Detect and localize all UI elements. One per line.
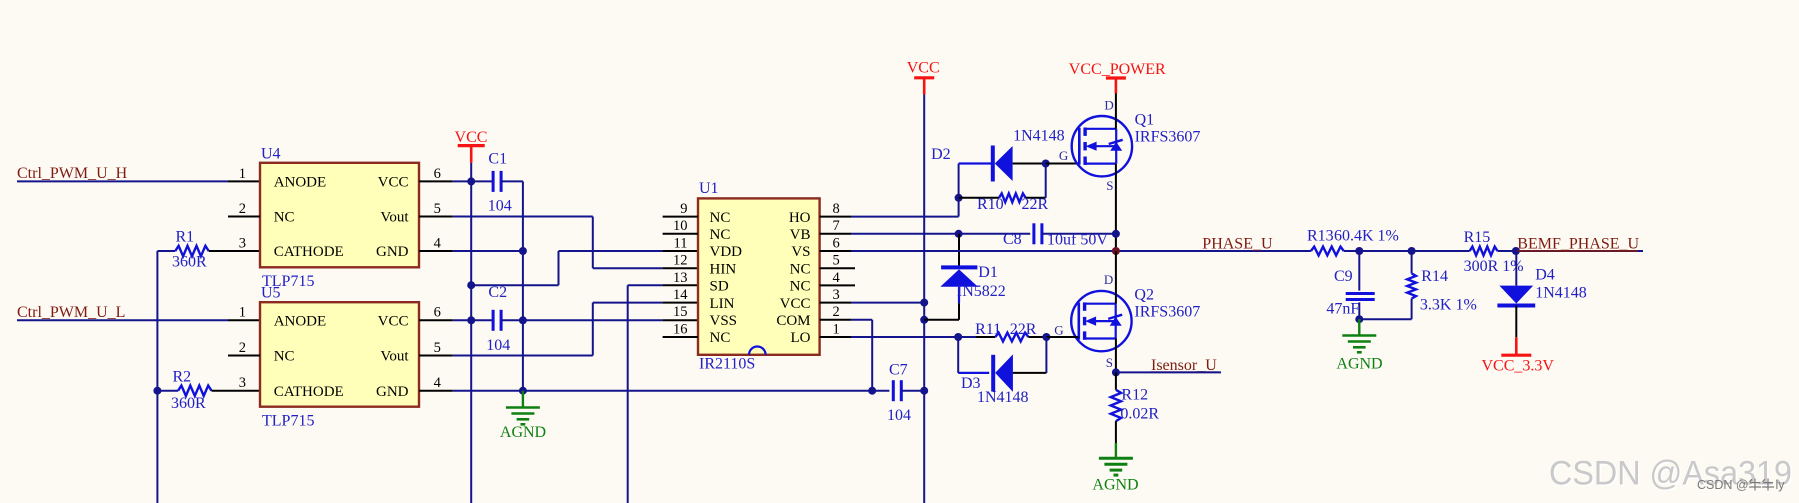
svg-text:5: 5 — [833, 253, 840, 269]
wire Q2 source to sense node — [1112, 339, 1120, 377]
node C9/R13 junction — [1355, 247, 1363, 255]
svg-text:104: 104 — [887, 407, 911, 424]
svg-text:6: 6 — [833, 235, 840, 251]
wire VS / PHASE_U row — [851, 250, 1643, 252]
svg-text:Vout: Vout — [380, 349, 409, 365]
svg-text:300R 1%: 300R 1% — [1464, 258, 1524, 275]
svg-text:U1: U1 — [699, 180, 719, 197]
svg-text:COM: COM — [776, 313, 810, 329]
svg-text:NC: NC — [790, 261, 811, 277]
svg-text:NC: NC — [710, 330, 731, 346]
watermark CSDN @niuniu-ly — [1697, 478, 1785, 492]
svg-text:12: 12 — [673, 253, 688, 269]
wire U5 pin4 (GND) / COM / C7 net — [453, 387, 876, 395]
svg-text:SD: SD — [710, 279, 729, 295]
wire U1 pin3 VCC to rail — [851, 302, 924, 304]
svg-text:ly: ly — [1776, 478, 1786, 492]
svg-text:IN5822: IN5822 — [957, 283, 1006, 300]
wire Isensor_U — [1116, 371, 1221, 373]
svg-text:360R: 360R — [171, 395, 206, 412]
svg-text:C2: C2 — [488, 284, 507, 301]
svg-text:10uf 50V: 10uf 50V — [1047, 232, 1108, 249]
resistor R12 0.02R — [1111, 372, 1160, 443]
resistor R15 300R 1% — [1464, 229, 1524, 275]
ground AGND (left) — [500, 391, 546, 441]
node BEMF_PHASE_U — [1512, 247, 1520, 255]
svg-text:NC: NC — [710, 227, 731, 243]
node PHASE_U at Q1/Q2 junction — [1112, 247, 1120, 255]
svg-text:13: 13 — [673, 270, 688, 286]
svg-text:47nF: 47nF — [1326, 301, 1359, 318]
svg-text:10: 10 — [673, 218, 688, 234]
svg-text:S: S — [1106, 178, 1113, 193]
svg-text:ANODE: ANODE — [274, 314, 327, 330]
svg-text:CSDN @: CSDN @ — [1697, 478, 1749, 492]
wire AGND vertical rail (C1-C2) — [519, 181, 527, 394]
resistor R2 — [157, 368, 260, 412]
svg-text:1N4148: 1N4148 — [1535, 285, 1587, 302]
ground AGND (under R12) — [1092, 443, 1138, 494]
svg-text:BEMF_PHASE_U: BEMF_PHASE_U — [1517, 235, 1639, 252]
svg-text:R15: R15 — [1464, 229, 1491, 246]
capacitor C9 47nF — [1326, 251, 1374, 319]
wire U1 pin7 VB to bootstrap C8 — [851, 230, 1030, 238]
wire gate node to Q2 gate — [1042, 323, 1078, 342]
wire U1 pin1 LO to gate network — [851, 333, 995, 341]
power symbol VCC (middle) — [907, 60, 940, 95]
svg-text:GND: GND — [376, 244, 409, 260]
svg-text:C9: C9 — [1334, 268, 1353, 285]
svg-text:R14: R14 — [1421, 268, 1448, 285]
svg-text:15: 15 — [673, 304, 688, 320]
svg-text:60.4K 1%: 60.4K 1% — [1334, 228, 1399, 245]
wire VCC to U1 VDD jog — [471, 251, 698, 285]
wire AGND rail to U1 VSS — [523, 319, 698, 321]
wire gate node to Q1 gate — [1042, 148, 1079, 168]
resistor R14 3.3K 1% — [1355, 251, 1476, 323]
svg-text:C1: C1 — [488, 151, 507, 168]
svg-text:16: 16 — [673, 321, 688, 337]
watermark CSDN @Asa319 — [1549, 454, 1794, 494]
svg-text:VS: VS — [791, 244, 810, 260]
svg-text:VCC_3.3V: VCC_3.3V — [1482, 358, 1555, 375]
svg-text:Ctrl_PWM_U_L: Ctrl_PWM_U_L — [17, 304, 125, 321]
transistor Q1 IRFS3607 — [1072, 98, 1201, 194]
svg-text:NC: NC — [274, 210, 295, 226]
capacitor C8 10uf 50V — [1003, 223, 1120, 248]
transistor Q2 IRFS3607 — [1071, 272, 1200, 370]
svg-text:Vout: Vout — [380, 210, 409, 226]
svg-text:LIN: LIN — [710, 296, 735, 312]
optocoupler U4 TLP715 — [228, 145, 453, 290]
svg-text:VCC_POWER: VCC_POWER — [1069, 61, 1166, 78]
svg-text:Isensor_U: Isensor_U — [1151, 357, 1217, 374]
wire U5 pin5 (Vout) to U1 LIN — [453, 303, 698, 356]
svg-text:22R: 22R — [1010, 321, 1037, 338]
net label PHASE_U — [1202, 235, 1273, 252]
wire Ctrl_PWM_U_H to U4 pin 1 — [17, 180, 260, 182]
svg-text:R11: R11 — [975, 321, 1001, 338]
wire U1 pin2 COM down to GND net — [851, 320, 872, 391]
resistor R13 60.4K 1% — [1307, 228, 1399, 256]
svg-text:4: 4 — [833, 270, 841, 286]
svg-text:104: 104 — [488, 198, 512, 215]
net label Ctrl_PWM_U_L — [17, 304, 125, 321]
svg-text:IRFS3607: IRFS3607 — [1135, 129, 1201, 146]
svg-text:NC: NC — [710, 210, 731, 226]
svg-text:D4: D4 — [1535, 267, 1555, 284]
svg-text:4: 4 — [434, 235, 442, 251]
net label Ctrl_PWM_U_H — [17, 165, 128, 182]
svg-text:IRFS3607: IRFS3607 — [1134, 304, 1200, 321]
svg-text:6: 6 — [434, 305, 441, 321]
svg-text:NC: NC — [790, 279, 811, 295]
svg-text:VDD: VDD — [710, 244, 743, 260]
svg-text:2: 2 — [239, 201, 246, 217]
ground AGND (under C9) — [1336, 319, 1382, 372]
svg-text:5: 5 — [434, 201, 441, 217]
resistor R10 22R — [959, 164, 1049, 214]
svg-text:1N4148: 1N4148 — [977, 389, 1029, 406]
wire U4 pin5 (Vout) to U1 HIN — [453, 217, 698, 269]
capacitor C7 — [872, 362, 924, 425]
svg-text:22R: 22R — [1022, 196, 1049, 213]
svg-text:S: S — [1106, 355, 1113, 370]
svg-text:C8: C8 — [1003, 231, 1022, 248]
wire R1-R2 common vertical — [153, 251, 161, 503]
svg-text:AGND: AGND — [1336, 356, 1382, 373]
svg-text:G: G — [1054, 323, 1063, 338]
svg-text:3.3K 1%: 3.3K 1% — [1420, 297, 1477, 314]
svg-text:9: 9 — [680, 201, 687, 217]
svg-text:D2: D2 — [931, 146, 951, 163]
resistor R1 — [157, 229, 260, 271]
wire U4 pin6 to VCC junction — [453, 177, 493, 185]
wire Q1 source to phase node — [1115, 164, 1117, 251]
svg-text:AGND: AGND — [500, 424, 546, 441]
svg-text:D1: D1 — [978, 264, 998, 281]
svg-text:HO: HO — [789, 210, 811, 226]
svg-text:3: 3 — [239, 235, 246, 251]
svg-text:TLP715: TLP715 — [262, 412, 314, 429]
svg-text:GND: GND — [376, 384, 409, 400]
svg-text:CATHODE: CATHODE — [274, 384, 344, 400]
diode D3 1N4148 — [958, 337, 1046, 406]
diode D4 1N4148 — [1497, 251, 1586, 337]
svg-text:Q1: Q1 — [1135, 112, 1155, 129]
node R14 junction — [1408, 247, 1416, 255]
power symbol VCC (left) — [455, 129, 488, 181]
capacitor C1 — [488, 151, 523, 215]
svg-text:VCC: VCC — [780, 296, 811, 312]
power symbol VCC_POWER — [1069, 61, 1166, 93]
svg-text:4: 4 — [434, 375, 442, 391]
svg-text:LO: LO — [791, 330, 811, 346]
capacitor C2 — [453, 284, 523, 354]
svg-text:U4: U4 — [261, 145, 281, 162]
svg-text:U5: U5 — [261, 285, 281, 302]
svg-text:PHASE_U: PHASE_U — [1202, 235, 1273, 252]
wire U4 pin4 (GND) to AGND rail — [453, 250, 523, 252]
svg-text:11: 11 — [674, 235, 688, 251]
wire VCC middle vertical rail — [920, 95, 928, 503]
svg-text:VCC: VCC — [378, 175, 409, 191]
wire U1 pin8 HO up to gate network — [851, 164, 963, 217]
svg-text:HIN: HIN — [710, 261, 737, 277]
op-amp driver U1 IR2110S — [663, 180, 855, 373]
wire phase node to Q2 drain — [1115, 251, 1117, 304]
svg-text:1: 1 — [239, 305, 246, 321]
svg-text:1: 1 — [239, 166, 246, 182]
svg-text:G: G — [1059, 148, 1068, 163]
svg-text:0.02R: 0.02R — [1120, 406, 1159, 423]
diode D1 IN5822 — [924, 234, 1006, 320]
svg-text:R1: R1 — [176, 229, 195, 246]
svg-text:360R: 360R — [172, 253, 207, 270]
svg-text:8: 8 — [833, 201, 840, 217]
svg-text:AGND: AGND — [1092, 477, 1138, 494]
svg-text:7: 7 — [833, 218, 840, 234]
svg-text:Q2: Q2 — [1134, 287, 1154, 304]
svg-text:ANODE: ANODE — [274, 175, 327, 191]
svg-text:5: 5 — [434, 340, 441, 356]
wire U1 SD to bottom edge — [628, 285, 698, 503]
svg-text:1N4148: 1N4148 — [1013, 128, 1065, 145]
wire VCC vertical rail — [467, 181, 475, 503]
svg-text:R10: R10 — [977, 196, 1004, 213]
svg-text:NC: NC — [274, 349, 295, 365]
power symbol VCC_3.3V — [1482, 337, 1555, 374]
svg-text:1: 1 — [833, 321, 840, 337]
optocoupler U5 TLP715 — [228, 285, 453, 430]
net label BEMF_PHASE_U — [1517, 235, 1640, 252]
svg-text:R2: R2 — [173, 368, 192, 385]
svg-text:VSS: VSS — [710, 313, 738, 329]
svg-text:C7: C7 — [889, 362, 908, 379]
svg-text:3: 3 — [239, 375, 246, 391]
svg-text:14: 14 — [673, 287, 688, 303]
svg-text:2: 2 — [239, 340, 246, 356]
svg-text:6: 6 — [434, 166, 441, 182]
svg-text:VCC: VCC — [907, 60, 940, 77]
svg-text:VB: VB — [790, 227, 811, 243]
wire VCC_POWER to Q1 drain — [1115, 94, 1117, 129]
svg-text:VCC: VCC — [455, 129, 488, 146]
net label Isensor_U — [1150, 357, 1218, 374]
svg-text:CATHODE: CATHODE — [274, 244, 344, 260]
diode D2 1N4148 — [931, 128, 1065, 182]
svg-text:R12: R12 — [1121, 386, 1148, 403]
svg-text:3: 3 — [833, 287, 840, 303]
svg-text:D: D — [1104, 98, 1113, 113]
svg-text:VCC: VCC — [378, 314, 409, 330]
svg-text:D: D — [1104, 272, 1113, 287]
svg-text:2: 2 — [833, 304, 840, 320]
svg-text:R13: R13 — [1307, 228, 1334, 245]
svg-text:IR2110S: IR2110S — [699, 356, 755, 373]
svg-text:Ctrl_PWM_U_H: Ctrl_PWM_U_H — [17, 165, 128, 182]
wire Ctrl_PWM_U_L to U5 pin 1 — [17, 319, 260, 321]
svg-text:104: 104 — [486, 337, 510, 354]
resistor R11 22R — [975, 321, 1046, 341]
